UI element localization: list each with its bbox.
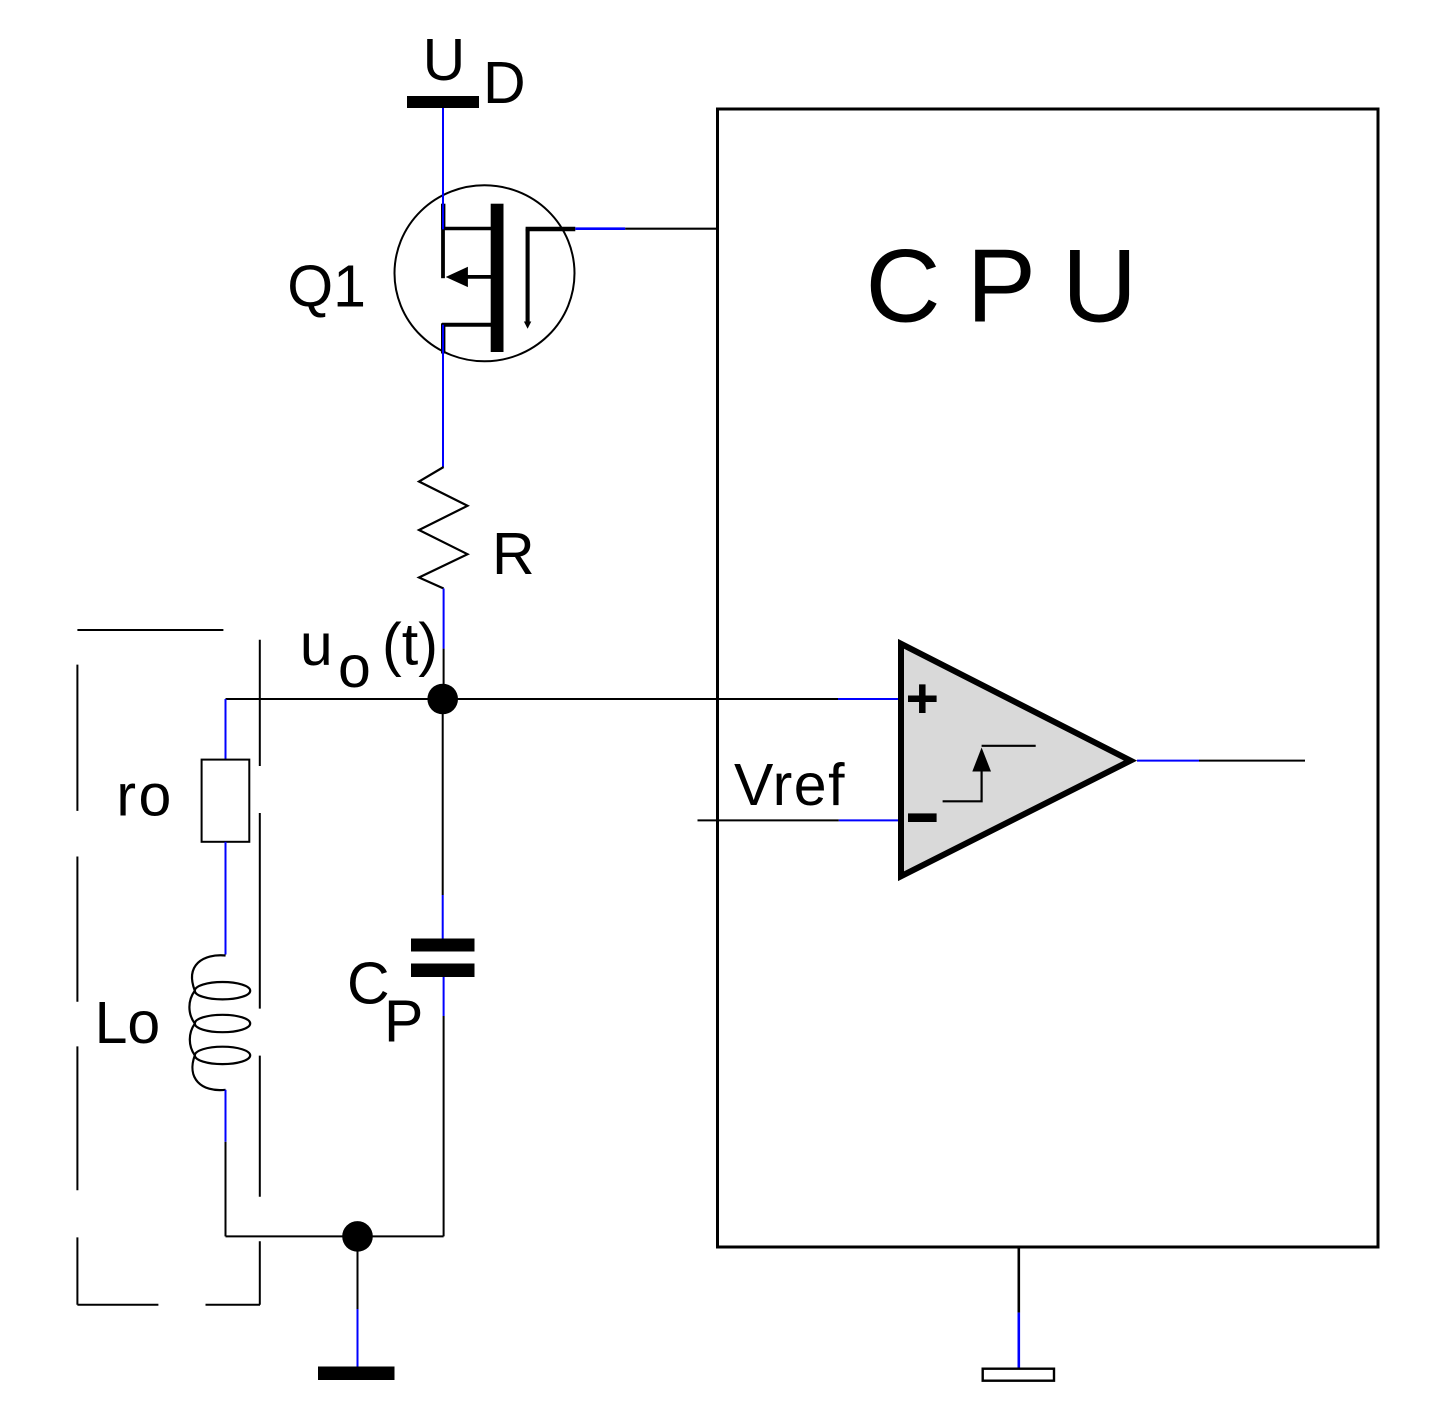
resistor R [419, 467, 468, 589]
node uo junction dot [427, 684, 458, 715]
wire ro to Lo [225, 842, 227, 955]
comparator U2 [901, 644, 1131, 876]
svg-text:Q1: Q1 [287, 254, 366, 320]
wire Q1 gate to CPU [575, 227, 719, 230]
transistor Q1 [395, 185, 576, 361]
wire comparator output [1137, 760, 1305, 762]
svg-text:U: U [423, 27, 466, 93]
capacitor Cp [411, 939, 475, 978]
wire Q1 source to R [442, 325, 444, 467]
svg-text:D: D [483, 50, 526, 116]
svg-text:o: o [338, 634, 371, 700]
wire Cp to bottom rail [443, 977, 445, 1236]
wire R to node uo [443, 589, 445, 685]
wire CPU to ground [1017, 1247, 1020, 1369]
wire Lo to bottom rail [225, 1090, 227, 1237]
wire down-left to ro [225, 699, 227, 760]
CPU box [718, 109, 1379, 1247]
svg-text:P: P [384, 989, 423, 1055]
dashed box around ro Lo [77, 630, 260, 1305]
ground bar CPU [983, 1369, 1054, 1381]
label uo(t) [300, 612, 438, 700]
wire node uo to comparator plus input [226, 698, 899, 700]
svg-text:u: u [300, 612, 333, 678]
svg-text:(t): (t) [382, 612, 438, 678]
wire to ground [357, 1251, 359, 1367]
wire U_D to Q1 drain [442, 108, 444, 229]
wire node uo down to capacitor Cp [442, 714, 444, 939]
resistor ro [202, 760, 250, 842]
label Cp [347, 951, 423, 1055]
svg-text:R: R [492, 521, 535, 587]
label U_D [423, 27, 526, 116]
power bar U_D [407, 96, 479, 108]
svg-text:Vref: Vref [734, 752, 846, 818]
wire Vref to comparator minus input [698, 819, 899, 821]
ground bar left [318, 1367, 395, 1381]
bottom rail wire [226, 1235, 444, 1237]
svg-text:ro: ro [116, 762, 173, 828]
svg-text:CPU: CPU [866, 229, 1164, 345]
node bottom junction dot [342, 1221, 373, 1252]
inductor Lo [189, 955, 250, 1090]
svg-text:Lo: Lo [95, 990, 161, 1056]
